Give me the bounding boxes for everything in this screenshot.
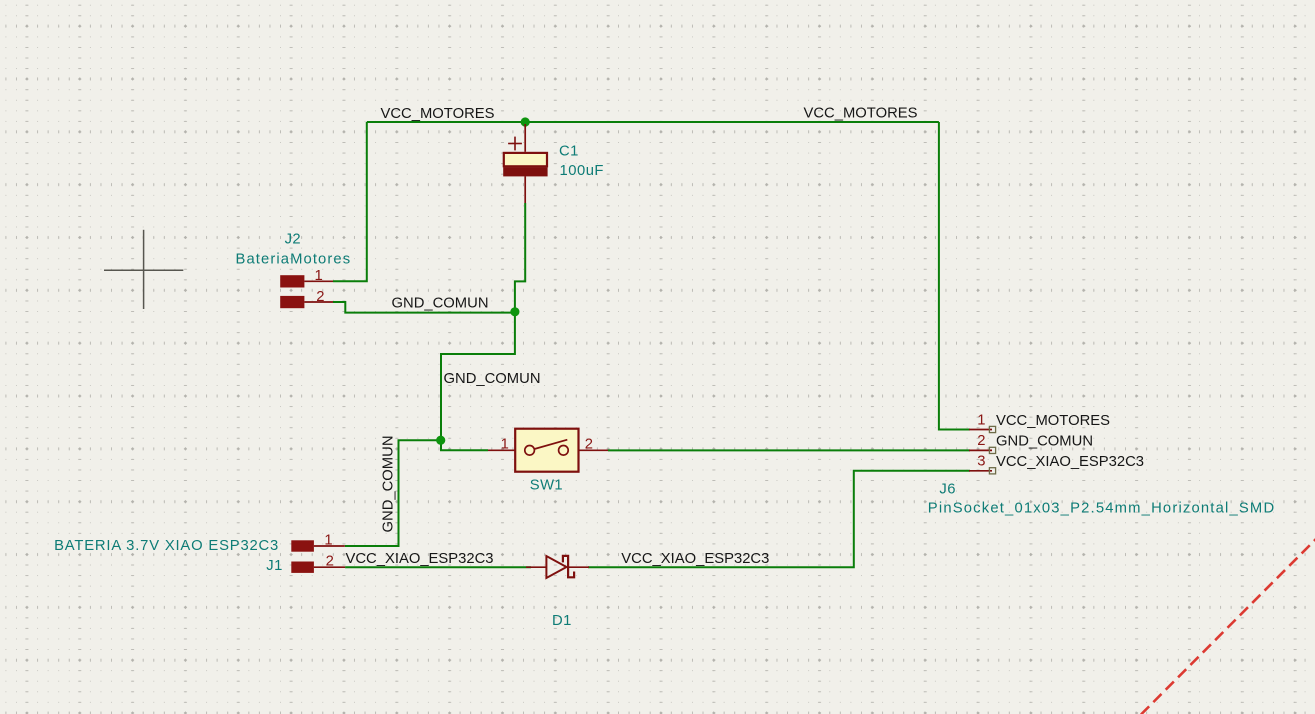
- diode D1 (Schottky): [526, 556, 589, 578]
- connector J2 labels: [236, 232, 352, 268]
- svg-text:J6: J6: [939, 482, 955, 498]
- connector J2 pin 2: [280, 289, 333, 308]
- svg-text:2: 2: [316, 289, 324, 305]
- origin crosshair marker: [104, 230, 183, 309]
- svg-text:VCC_XIAO_ESP32C3: VCC_XIAO_ESP32C3: [346, 551, 494, 567]
- connector J2 pin 1: [280, 268, 333, 287]
- svg-text:GND_COMUN: GND_COMUN: [444, 371, 541, 387]
- wire GND_COMUN down to J1 pin1: [345, 440, 441, 546]
- sheet boundary red dashed line: [1141, 539, 1315, 714]
- svg-text:1: 1: [324, 533, 332, 549]
- svg-text:2: 2: [326, 554, 334, 570]
- svg-text:100uF: 100uF: [560, 163, 604, 179]
- svg-text:J1: J1: [266, 558, 282, 574]
- wire VCC_MOTORES top horizontal: [367, 121, 939, 123]
- svg-text:BATERIA 3.7V XIAO ESP32C3: BATERIA 3.7V XIAO ESP32C3: [54, 538, 279, 554]
- svg-text:VCC_MOTORES: VCC_MOTORES: [996, 413, 1110, 429]
- svg-text:BateriaMotores: BateriaMotores: [236, 252, 352, 268]
- junction at C1 top: [521, 117, 530, 126]
- wire GND node to SW1 pin1: [441, 440, 488, 450]
- connector J6 labels: [928, 482, 1276, 517]
- connector J6 pin 2: [969, 433, 996, 454]
- wire SW1 pin2 to J6 pin2: [608, 449, 970, 451]
- svg-text:J2: J2: [285, 232, 301, 248]
- svg-text:PinSocket_01x03_P2.54mm_Horizo: PinSocket_01x03_P2.54mm_Horizontal_SMD: [928, 501, 1276, 517]
- svg-text:2: 2: [585, 437, 593, 453]
- connector J1 pin 2: [291, 554, 345, 573]
- svg-text:SW1: SW1: [530, 478, 563, 494]
- junction at GND node left of SW1: [436, 436, 445, 445]
- connector J1 labels: [54, 538, 283, 574]
- svg-text:C1: C1: [559, 144, 579, 160]
- capacitor C1: [503, 124, 547, 203]
- svg-text:D1: D1: [552, 613, 572, 629]
- switch SW1: [488, 429, 608, 472]
- wire GND_COMUN middle jog: [441, 313, 515, 441]
- capacitor C1 labels: [559, 144, 604, 180]
- wire D1 cathode to J6 pin3: [588, 471, 970, 567]
- wire J2 pin2 to GND_COMUN: [333, 302, 515, 313]
- svg-text:VCC_XIAO_ESP32C3: VCC_XIAO_ESP32C3: [996, 454, 1144, 470]
- connector J1 pin 1: [291, 533, 345, 552]
- wire J2 pin1 to VCC_MOTORES: [333, 122, 367, 281]
- junction at GND node below C1: [510, 307, 519, 316]
- svg-text:GND_COMUN: GND_COMUN: [996, 433, 1093, 449]
- connector J6 pin 3: [969, 454, 996, 474]
- connector J6 pin 1: [969, 413, 996, 433]
- svg-text:1: 1: [501, 437, 509, 453]
- svg-text:GND_COMUN: GND_COMUN: [381, 435, 397, 532]
- svg-text:1: 1: [315, 268, 323, 284]
- svg-text:GND_COMUN: GND_COMUN: [392, 296, 489, 312]
- svg-text:VCC_XIAO_ESP32C3: VCC_XIAO_ESP32C3: [621, 551, 769, 567]
- svg-text:1: 1: [977, 413, 985, 429]
- svg-text:2: 2: [977, 433, 985, 449]
- svg-text:VCC_MOTORES: VCC_MOTORES: [381, 106, 495, 122]
- wire J1 pin2 to D1 anode: [345, 566, 531, 568]
- svg-text:3: 3: [977, 454, 985, 470]
- wire C1 bottom to GND node: [515, 203, 525, 313]
- wire VCC_MOTORES right vertical: [939, 122, 970, 430]
- svg-text:VCC_MOTORES: VCC_MOTORES: [804, 106, 918, 122]
